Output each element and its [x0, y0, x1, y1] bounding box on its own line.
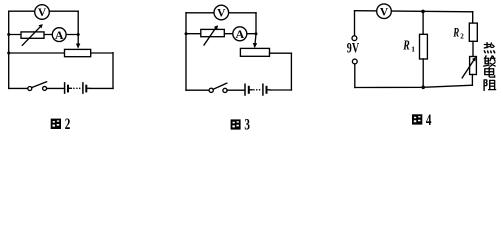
wire: top wire of fig2 voltmeter loop — [9, 10, 79, 12]
wire: left vertical lower fig4 — [354, 64, 356, 88]
char zu — [484, 80, 496, 91]
battery cells fig2 — [65, 83, 90, 93]
slider arrow into potentiometer fig3 — [253, 34, 257, 49]
rheostat arrow fig3 — [204, 25, 218, 45]
wire: second row wire fig3 — [186, 33, 256, 35]
svg-text:2: 2 — [65, 115, 71, 132]
resistor: slide rheostat box fig3 — [240, 48, 269, 56]
ammeter A fig2 — [52, 28, 66, 42]
thermistor box fig4 — [470, 57, 477, 75]
label 9V battery fig4 — [347, 40, 360, 56]
label fig4 caption — [412, 111, 432, 128]
wire: third row wire fig2 — [9, 52, 113, 54]
node: top junction dot fig4 — [421, 10, 425, 14]
wire: voltmeter-loop right vertical fig3 — [255, 13, 257, 34]
switch fig3 — [209, 83, 227, 92]
wire: middle branch lower fig4 — [422, 59, 424, 87]
node: junction dot left end of second row fig2 — [7, 33, 10, 36]
wire: bottom wire between switch and battery fig3 — [227, 89, 244, 91]
svg-text:4: 4 — [426, 111, 432, 128]
label thermistor chinese text (re min dian zu) vertical column — [484, 43, 496, 91]
node: bottom junction dot fig4 — [421, 86, 425, 90]
wire: left vertical wire fig2 — [8, 11, 10, 88]
wire: from rheostat to right vertical fig3 — [270, 52, 292, 54]
svg-text:V: V — [38, 7, 47, 19]
resistor R1 fig4 — [420, 34, 428, 59]
resistor: slide rheostat box fig2 — [65, 49, 91, 56]
wire: bottom wire right segment fig3 — [270, 89, 292, 91]
label fig2 caption — [51, 115, 71, 132]
label R1 — [402, 38, 415, 53]
wire: middle branch upper fig4 — [422, 11, 424, 34]
svg-text:R: R — [452, 26, 459, 40]
wire: right vertical wire fig2 — [112, 53, 114, 89]
battery terminal upper fig4 — [352, 36, 357, 41]
wire: right branch upper fig4 — [472, 12, 474, 23]
wire: right branch lower fig4 — [471, 75, 473, 86]
svg-text:9V: 9V — [347, 40, 360, 56]
wire: bottom wire right segment fig2 — [90, 87, 113, 89]
char re — [484, 43, 494, 53]
svg-text:1: 1 — [411, 44, 415, 53]
battery cells fig3 — [245, 84, 270, 95]
svg-text:A: A — [235, 27, 244, 41]
node: junction dot right end of second row fig3 — [255, 32, 258, 35]
slider arrow into potentiometer fig2 — [76, 35, 80, 49]
wire: top wire fig3 — [186, 12, 256, 14]
svg-text:V: V — [380, 6, 389, 18]
resistor: rheostat box fig2 — [21, 32, 44, 38]
wire: second row wire fig2 — [9, 34, 79, 36]
label fig3 caption — [231, 116, 251, 133]
resistor: rheostat box fig3 — [201, 29, 225, 36]
node: junction dot left end of second row fig3 — [185, 32, 188, 35]
label R2 — [452, 26, 464, 40]
wire: bottom wire fig4 — [355, 85, 473, 87]
svg-text:2: 2 — [460, 32, 464, 40]
wire: bottom wire left segment fig2 — [9, 87, 28, 89]
voltmeter V fig4 — [377, 4, 392, 19]
wire: voltmeter-loop right vertical fig2 — [77, 11, 79, 34]
ammeter A fig3 — [233, 27, 247, 41]
node: junction dot third row left fig2 — [7, 52, 10, 55]
svg-text:A: A — [55, 28, 64, 42]
rheostat arrow fig2 — [22, 24, 43, 45]
switch fig2 — [28, 82, 47, 91]
wire: right branch between R2 and thermistor fig4 — [472, 41, 474, 56]
char min — [484, 56, 496, 67]
svg-text:R: R — [402, 38, 409, 53]
wire: top wire fig4 — [355, 11, 473, 12]
resistor R2 fig4 — [469, 23, 477, 41]
wire: left vertical wire fig3 — [185, 13, 187, 90]
node: junction dot right end of second row fig2 — [77, 33, 80, 36]
voltmeter V fig2 — [35, 5, 50, 20]
svg-text:3: 3 — [244, 116, 250, 133]
thermistor arrow fig4 — [462, 57, 476, 78]
char dian — [485, 67, 495, 77]
battery terminal lower fig4 — [352, 59, 357, 64]
wire: bottom wire left segment fig3 — [186, 89, 209, 91]
wire: right vertical wire fig3 — [290, 53, 292, 90]
voltmeter V fig3 — [214, 5, 229, 20]
wire: bottom wire between switch and battery fig2 — [47, 87, 64, 89]
wire: left vertical upper fig4 — [354, 11, 356, 36]
svg-text:V: V — [217, 8, 226, 20]
